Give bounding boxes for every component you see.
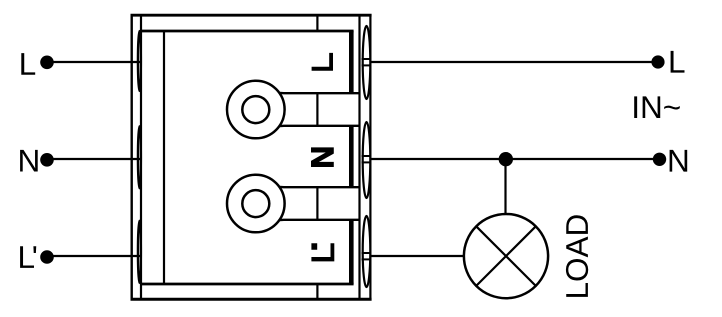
wire N output: [372, 158, 660, 160]
oval crossing tick N: [362, 155, 371, 157]
screw terminal ring 2 hole: [242, 190, 269, 217]
node L terminal dot: [40, 56, 54, 70]
terminal block inner top edge: [141, 30, 354, 33]
blade contact L: [349, 31, 354, 93]
wire junction to lamp: [504, 159, 506, 215]
wire entry slot L: [138, 31, 141, 91]
screw terminal ring 2: [227, 175, 285, 233]
terminal block bottom split line: [316, 284, 318, 299]
wire: [47, 158, 141, 160]
wire L' to lamp: [372, 255, 466, 257]
node N output label: [670, 150, 688, 172]
wire entry slot N: [138, 126, 141, 188]
wire: [47, 61, 141, 63]
pin label L': [311, 243, 334, 261]
screw terminal ring 1 hole: [242, 96, 269, 123]
terminal block inner-left wall: [140, 14, 142, 299]
lamp LOAD circle: [464, 214, 548, 298]
screw terminal ring 1: [227, 81, 285, 139]
terminal 1 tongue outline: [270, 88, 360, 131]
node L output label: [671, 51, 685, 73]
blade contact N: [349, 126, 354, 187]
mounting oval L': [363, 216, 371, 287]
lamp cross stroke 2: [476, 226, 536, 286]
node N output dot: [653, 153, 666, 166]
node L (mains input, left): [21, 53, 35, 75]
node L' (switched output, left): [20, 246, 36, 268]
terminal 2 tongue outline: [270, 182, 360, 225]
label LOAD: [566, 215, 588, 297]
pin label L: [312, 53, 333, 71]
junction node: [499, 152, 513, 166]
node L output dot: [651, 55, 664, 68]
wire: [47, 255, 141, 257]
node L' terminal dot: [40, 250, 54, 264]
label IN~: [634, 96, 680, 118]
node N terminal dot: [40, 153, 54, 167]
oval crossing tick L: [362, 58, 371, 60]
blade contact L': [349, 220, 354, 284]
terminal 1 neck divider: [316, 93, 318, 126]
mounting oval N: [363, 122, 371, 198]
terminal block top split line: [316, 15, 318, 31]
pin label N: [312, 148, 334, 167]
terminal block right wall: [358, 15, 360, 299]
wire L output: [372, 61, 659, 63]
lamp cross stroke 1: [476, 226, 536, 286]
terminal block inner bottom edge: [141, 283, 354, 286]
node N (mains input, left): [20, 150, 38, 172]
oval crossing tick L': [362, 252, 371, 254]
terminal block X1 outer housing: [131, 14, 372, 17]
terminal 2 neck divider: [316, 187, 318, 220]
wire entry slot L': [138, 221, 141, 283]
mounting oval L: [363, 26, 371, 99]
terminal block interior ridge: [163, 31, 165, 284]
